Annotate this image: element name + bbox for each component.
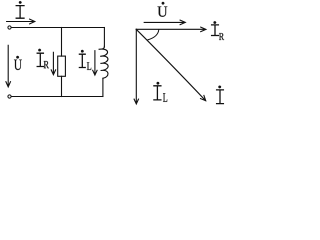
label U text (left) <box>14 60 22 70</box>
phasor: label U (dot) <box>162 2 165 5</box>
wire right bottom lead <box>102 78 104 96</box>
wire resistor top lead <box>61 28 63 57</box>
label U with arrow (dot) <box>16 56 19 59</box>
phasor: label I_R (letter I) <box>212 25 219 36</box>
phasor: arrow I (diagonal) <box>136 29 206 100</box>
phasor: label I (letter I) <box>217 90 224 104</box>
arrow for I_L (points down) <box>93 51 97 75</box>
phasor: label I_L (letter I) <box>154 86 161 100</box>
arrow for U (points down) <box>6 45 11 87</box>
wire top <box>12 27 105 29</box>
phasor: arrow I_L <box>134 29 138 104</box>
label I_R subscript R (circuit) <box>44 61 49 68</box>
terminal bottom-left <box>8 95 11 98</box>
phasor label U text <box>158 7 168 17</box>
phasor: label I (dot) <box>218 86 221 89</box>
wire resistor bottom lead <box>61 76 63 96</box>
phasor label I_R subscript R <box>219 33 224 40</box>
label I_L subscript L (circuit) <box>87 62 91 70</box>
phasor: label I_R (dot) <box>214 21 217 24</box>
inductor L <box>99 46 109 78</box>
label I_L (letter I) <box>79 54 85 67</box>
label I_R (letter I) <box>37 53 43 66</box>
label I (source current, letter) <box>16 6 24 19</box>
terminal top-left <box>8 26 11 29</box>
label I_R (dot) <box>38 49 41 52</box>
wire right top lead <box>103 28 105 47</box>
phasor label I_L subscript L <box>163 93 167 102</box>
resistor R <box>58 56 66 76</box>
wire bottom <box>12 96 103 98</box>
phasor: angle arc <box>148 30 159 40</box>
label I_L (dot) <box>81 50 84 53</box>
label I (source current, dot) <box>19 1 22 4</box>
phasor: label I_L (dot) <box>157 82 160 85</box>
phasor: arrow U <box>144 20 185 25</box>
arrow for I_R (points down) <box>51 52 55 74</box>
phasor: arrow I_R <box>136 27 206 32</box>
arrow for I <box>7 19 35 24</box>
